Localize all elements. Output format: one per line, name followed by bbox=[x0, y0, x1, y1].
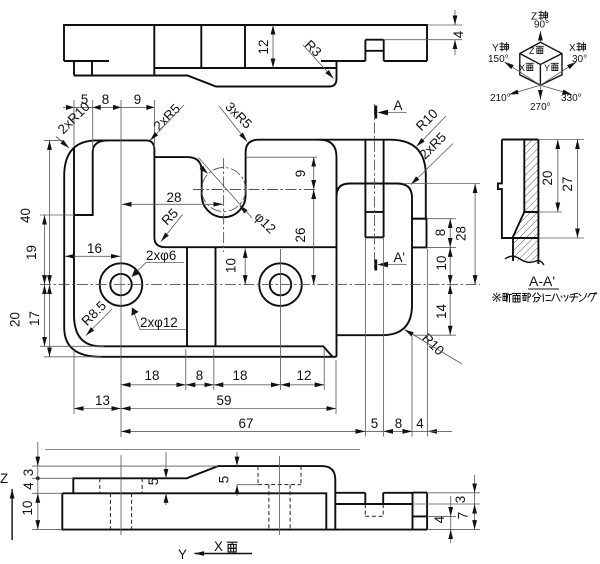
svg-text:4: 4 bbox=[451, 30, 466, 38]
svg-text:5: 5 bbox=[146, 478, 161, 485]
svg-text:X: X bbox=[214, 539, 223, 554]
svg-text:X: X bbox=[569, 43, 576, 54]
svg-text:8: 8 bbox=[102, 92, 109, 107]
svg-text:2xφ6: 2xφ6 bbox=[146, 248, 176, 263]
svg-text:7: 7 bbox=[456, 512, 471, 519]
svg-text:40: 40 bbox=[18, 208, 33, 223]
svg-text:16: 16 bbox=[87, 241, 102, 256]
svg-text:18: 18 bbox=[233, 368, 248, 383]
svg-text:13: 13 bbox=[95, 393, 110, 408]
svg-text:150°: 150° bbox=[488, 54, 509, 65]
svg-text:9: 9 bbox=[293, 170, 308, 177]
svg-text:2xφ12: 2xφ12 bbox=[140, 315, 178, 330]
svg-text:210°: 210° bbox=[490, 93, 511, 104]
svg-text:Z: Z bbox=[0, 471, 8, 486]
svg-text:A-A': A-A' bbox=[529, 273, 555, 289]
svg-text:10: 10 bbox=[434, 256, 449, 271]
svg-text:8: 8 bbox=[196, 368, 203, 383]
svg-text:4: 4 bbox=[432, 515, 447, 523]
svg-text:28: 28 bbox=[454, 226, 469, 241]
svg-text:26: 26 bbox=[293, 228, 308, 243]
svg-text:8: 8 bbox=[433, 229, 448, 236]
svg-text:5: 5 bbox=[217, 476, 232, 483]
svg-text:19: 19 bbox=[24, 245, 39, 260]
svg-text:90°: 90° bbox=[534, 20, 549, 31]
svg-text:Y: Y bbox=[178, 547, 187, 562]
svg-text:9: 9 bbox=[134, 92, 141, 107]
svg-text:Y: Y bbox=[544, 63, 550, 73]
svg-text:4: 4 bbox=[416, 416, 424, 431]
svg-text:17: 17 bbox=[27, 311, 42, 326]
svg-text:12: 12 bbox=[297, 368, 312, 383]
svg-text:27: 27 bbox=[560, 177, 575, 192]
svg-text:X: X bbox=[519, 63, 525, 73]
svg-text:A': A' bbox=[394, 250, 406, 265]
svg-text:14: 14 bbox=[434, 304, 449, 319]
svg-text:A: A bbox=[394, 98, 403, 113]
svg-text:12: 12 bbox=[256, 40, 271, 55]
svg-text:4: 4 bbox=[21, 482, 36, 490]
svg-text:Z: Z bbox=[529, 46, 535, 56]
svg-text:30°: 30° bbox=[572, 54, 587, 65]
svg-text:20: 20 bbox=[540, 171, 555, 186]
svg-text:330°: 330° bbox=[561, 93, 582, 104]
svg-text:67: 67 bbox=[239, 416, 254, 431]
svg-text:18: 18 bbox=[145, 368, 160, 383]
svg-text:3: 3 bbox=[21, 469, 36, 476]
svg-text:3: 3 bbox=[453, 496, 468, 503]
svg-text:10: 10 bbox=[224, 258, 239, 273]
svg-text:20: 20 bbox=[8, 312, 23, 327]
svg-text:10: 10 bbox=[20, 501, 35, 516]
svg-text:28: 28 bbox=[167, 190, 182, 205]
svg-text:270°: 270° bbox=[530, 102, 551, 113]
svg-text:8: 8 bbox=[395, 416, 402, 431]
svg-text:Y: Y bbox=[492, 43, 499, 54]
svg-text:5: 5 bbox=[371, 416, 378, 431]
svg-text:59: 59 bbox=[217, 393, 232, 408]
